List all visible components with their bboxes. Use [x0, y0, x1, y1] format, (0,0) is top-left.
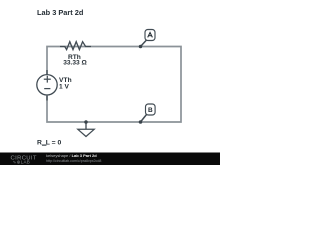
svg-text:Lab 3 Part 2d: Lab 3 Part 2d	[37, 8, 84, 17]
svg-text:33.33 Ω: 33.33 Ω	[63, 60, 87, 67]
svg-text:B: B	[148, 107, 153, 114]
svg-text:1 V: 1 V	[59, 84, 69, 91]
svg-text:kelseyshape / Lab 3 Part 2d: kelseyshape / Lab 3 Part 2d	[46, 153, 97, 158]
svg-text:R_L = 0: R_L = 0	[37, 139, 61, 146]
svg-text:http://circuitlab.com/c/pra8vp: http://circuitlab.com/c/pra8vpx2cd8	[46, 159, 101, 163]
svg-text:∿⊕LAB: ∿⊕LAB	[13, 159, 31, 164]
